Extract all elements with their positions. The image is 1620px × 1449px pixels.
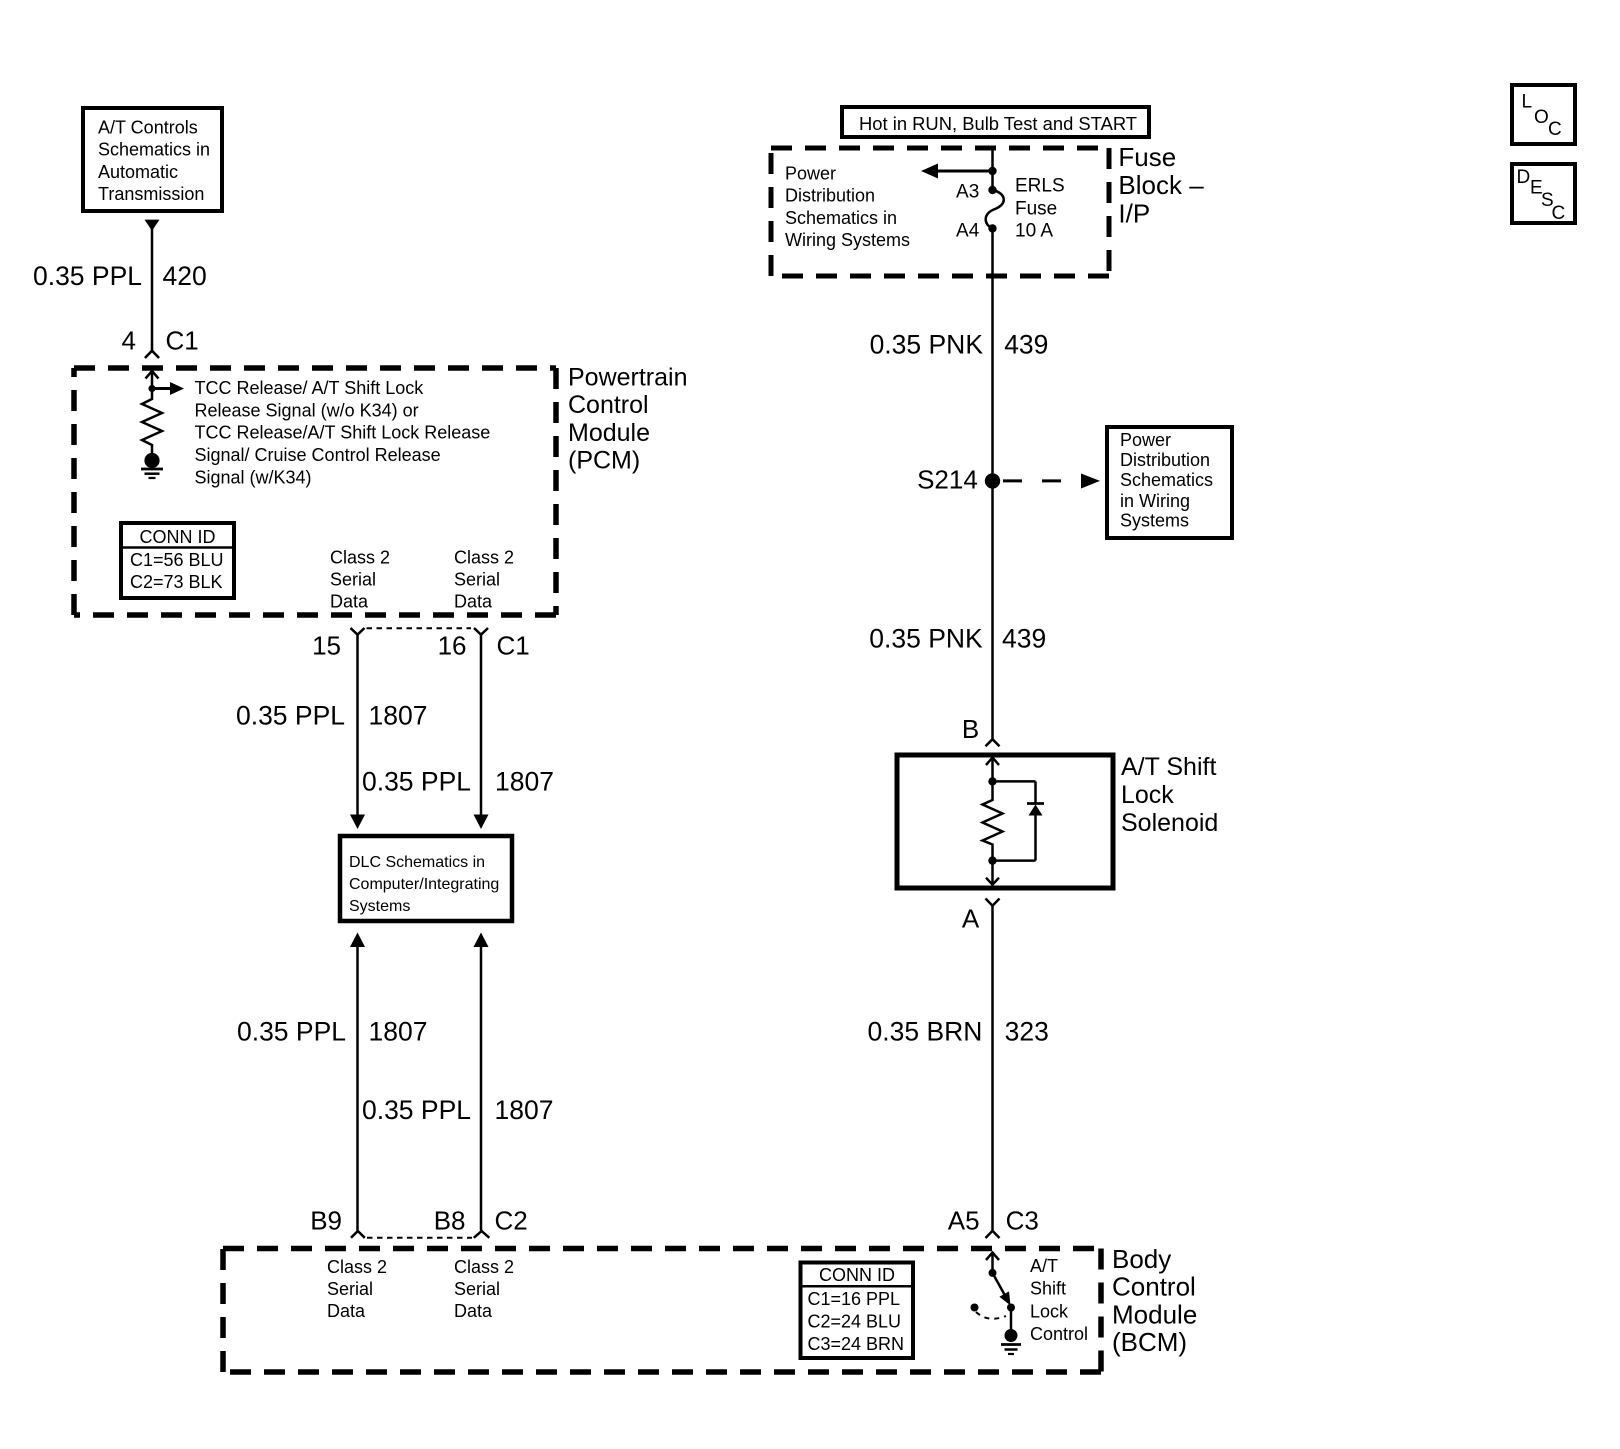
svg-text:Module: Module — [1112, 1299, 1197, 1329]
svg-text:Class 2: Class 2 — [330, 547, 390, 567]
svg-text:TCC Release/A/T Shift Lock Rel: TCC Release/A/T Shift Lock Release — [195, 423, 491, 443]
svg-text:0.35 PPL: 0.35 PPL — [33, 261, 142, 291]
svg-text:Shift: Shift — [1030, 1279, 1066, 1299]
svg-text:CONN ID: CONN ID — [819, 1265, 895, 1285]
Hot in RUN, Bulb Test and START feed box — [842, 107, 1149, 137]
junction dot at fuse feed — [988, 167, 996, 175]
Class 2 Serial Data label (PCM pin 16) — [454, 547, 514, 611]
svg-text:Wiring Systems: Wiring Systems — [785, 230, 910, 250]
branch arrow to Power Distribution (left-pointing) — [921, 164, 993, 179]
BCM internal pin A5 arrow — [986, 1253, 999, 1273]
wire label 0.35 PPL 1807 (pin 16 drop) — [362, 766, 554, 796]
svg-text:Distribution: Distribution — [785, 186, 875, 206]
connector chevron PCM pin 15 — [351, 628, 365, 635]
svg-text:10 A: 10 A — [1015, 221, 1053, 242]
svg-text:1807: 1807 — [495, 766, 554, 796]
ground symbol inside PCM — [141, 469, 163, 478]
connector chevron PCM pin 16 / C1 — [474, 628, 488, 635]
wire label 0.35 PPL 1807 (B8 riser) — [362, 1095, 553, 1125]
svg-text:1807: 1807 — [369, 700, 428, 730]
svg-text:C1: C1 — [166, 326, 199, 356]
svg-text:C2=73 BLK: C2=73 BLK — [130, 572, 223, 592]
svg-text:Hot in RUN, Bulb Test and STAR: Hot in RUN, Bulb Test and START — [859, 113, 1137, 134]
wire label 0.35 BRN 323 — [868, 1017, 1049, 1047]
svg-text:S214: S214 — [917, 465, 978, 495]
svg-text:Serial: Serial — [454, 1279, 500, 1299]
svg-text:Control: Control — [1112, 1272, 1196, 1302]
svg-text:323: 323 — [1005, 1017, 1049, 1047]
svg-text:C2: C2 — [495, 1205, 528, 1235]
svg-text:C3=24 BRN: C3=24 BRN — [808, 1334, 905, 1354]
BCM CONN ID table — [801, 1263, 914, 1359]
svg-text:A/T: A/T — [1030, 1256, 1058, 1276]
connector chevron solenoid pin B — [986, 739, 1000, 746]
svg-text:O: O — [1534, 107, 1549, 128]
svg-text:420: 420 — [163, 261, 207, 291]
svg-text:439: 439 — [1002, 623, 1046, 653]
DLC Schematics reference box — [340, 836, 512, 921]
splice S214 dot — [985, 473, 1000, 488]
svg-text:Lock: Lock — [1121, 781, 1174, 809]
svg-text:Serial: Serial — [330, 570, 376, 590]
svg-text:B9: B9 — [310, 1205, 342, 1235]
svg-text:0.35 PNK: 0.35 PNK — [869, 623, 983, 653]
svg-text:Data: Data — [327, 1301, 366, 1321]
dashed connector tie line between pins 15 and 16 — [367, 627, 472, 629]
svg-text:Fuse: Fuse — [1118, 142, 1176, 172]
svg-text:1807: 1807 — [495, 1095, 554, 1125]
svg-text:C: C — [1552, 203, 1566, 224]
ground dot inside PCM — [144, 453, 159, 468]
wire 439 from S214 down to solenoid pin B — [991, 481, 994, 739]
ground wire below switch — [1010, 1308, 1013, 1333]
svg-text:Signal/ Cruise Control Release: Signal/ Cruise Control Release — [195, 445, 441, 465]
connector chevron BCM pin A5 / C3 — [986, 1231, 1000, 1238]
ground dot inside BCM — [1005, 1329, 1018, 1342]
dashed connector tie line between pins B9 and B8 — [367, 1237, 472, 1239]
svg-text:(BCM): (BCM) — [1112, 1327, 1187, 1357]
svg-text:4: 4 — [122, 326, 136, 356]
wire label 0.35 PNK 439 (lower) — [869, 623, 1046, 653]
solenoid coil resistor — [983, 781, 1003, 860]
A/T Controls Schematics in Automatic Transmission reference box — [83, 108, 222, 211]
svg-text:I/P: I/P — [1118, 198, 1150, 228]
solenoid bottom node dot — [988, 856, 996, 864]
svg-text:Schematics in: Schematics in — [785, 208, 897, 228]
svg-text:Powertrain: Powertrain — [568, 364, 688, 392]
connector chevron BCM pin B9 — [351, 1231, 365, 1238]
svg-text:A: A — [962, 904, 980, 934]
LOC legend box — [1512, 85, 1575, 144]
BCM module label — [1112, 1244, 1197, 1357]
svg-text:Lock: Lock — [1030, 1301, 1069, 1321]
connector C1 female chevron at PCM pin 4 — [145, 351, 159, 358]
svg-text:Control: Control — [568, 391, 649, 419]
svg-text:A/T Controls: A/T Controls — [98, 118, 198, 138]
pin 4 / connector C1 labels — [122, 326, 199, 356]
svg-text:1807: 1807 — [369, 1017, 428, 1047]
svg-text:A5: A5 — [948, 1205, 980, 1235]
svg-text:Data: Data — [454, 1301, 493, 1321]
svg-text:0.35 PNK: 0.35 PNK — [870, 330, 984, 360]
svg-text:C1: C1 — [497, 631, 530, 661]
svg-text:0.35 PPL: 0.35 PPL — [362, 1095, 471, 1125]
svg-text:in Wiring: in Wiring — [1120, 491, 1190, 511]
PCM module label — [568, 364, 688, 475]
svg-text:Solenoid: Solenoid — [1121, 809, 1218, 837]
svg-text:C1=56 BLU: C1=56 BLU — [130, 550, 224, 570]
svg-text:Transmission: Transmission — [98, 184, 204, 204]
svg-text:Computer/Integrating: Computer/Integrating — [349, 876, 499, 893]
dashed reference arrow from S214 to Power Distribution box — [1003, 474, 1100, 489]
PCM internal male pin arrow (pin 4) — [146, 371, 159, 389]
svg-text:B: B — [962, 714, 979, 744]
Fuse Block - I/P dashed box — [771, 148, 1109, 276]
TCC Release signal description text — [195, 378, 491, 488]
svg-text:Power: Power — [1120, 430, 1171, 450]
A/T Shift Lock Solenoid box — [897, 755, 1113, 888]
signal branch arrow pointing right to TCC label — [152, 382, 184, 395]
wire label 0.35 PNK 439 (upper) — [870, 330, 1049, 360]
svg-text:Module: Module — [568, 419, 650, 447]
svg-text:0.35 BRN: 0.35 BRN — [868, 1017, 983, 1047]
wire label 0.35 PPL 1807 (pin 15 drop) — [236, 700, 427, 730]
svg-text:Class 2: Class 2 — [327, 1257, 387, 1277]
pin labels A5, C3 — [948, 1205, 1039, 1235]
svg-text:(PCM): (PCM) — [568, 446, 640, 474]
DESC legend box — [1512, 164, 1575, 224]
svg-text:Release Signal (w/o K34) or: Release Signal (w/o K34) or — [195, 400, 419, 420]
svg-text:Class 2: Class 2 — [454, 1257, 514, 1277]
svg-text:B8: B8 — [434, 1205, 466, 1235]
svg-text:15: 15 — [312, 631, 341, 661]
Class 2 Serial Data label (PCM pin 15) — [330, 547, 390, 611]
wire 1807 from BCM B8 up to DLC box (arrow up) — [474, 933, 489, 1231]
solenoid module label — [1121, 753, 1218, 837]
Power Distribution Schematics in Wiring Systems reference box (right) — [1107, 427, 1232, 538]
terminal labels A3, A4 — [956, 182, 980, 242]
svg-text:A/T Shift: A/T Shift — [1121, 753, 1216, 781]
ground symbol inside BCM — [1001, 1345, 1021, 1355]
svg-text:C3: C3 — [1006, 1205, 1039, 1235]
solenoid internal pin A arrow (down) — [986, 861, 999, 885]
clamp diode across solenoid coil — [993, 781, 1045, 860]
svg-text:Systems: Systems — [1120, 510, 1189, 530]
svg-text:Distribution: Distribution — [1120, 450, 1210, 470]
A/T shift lock control switch inside BCM — [971, 1269, 1016, 1319]
svg-text:L: L — [1522, 92, 1533, 113]
wire 1807 from BCM B9 up to DLC box (arrow up) — [350, 933, 365, 1231]
wire label 0.35 PPL 1807 (B9 riser) — [237, 1017, 427, 1047]
fuse value label ERLS Fuse 10 A — [1015, 176, 1065, 242]
svg-text:Class 2: Class 2 — [454, 547, 514, 567]
svg-text:Signal (w/K34): Signal (w/K34) — [195, 468, 312, 488]
switch label A/T Shift Lock Control — [1030, 1256, 1088, 1344]
connector chevron BCM pin B8 / C2 — [474, 1231, 490, 1238]
Class 2 Serial Data label (BCM pin B9) — [327, 1257, 387, 1321]
svg-text:C: C — [1548, 119, 1562, 140]
wire 323 from solenoid pin A down to BCM pin A5 — [991, 906, 994, 1230]
svg-text:CONN ID: CONN ID — [140, 527, 216, 547]
svg-text:Power: Power — [785, 164, 836, 184]
svg-text:Control: Control — [1030, 1324, 1088, 1344]
Power Distribution Schematics in Wiring Systems text (fuse block) — [785, 164, 910, 251]
node junction dot inside PCM — [148, 385, 155, 392]
wire 439 from fuse A4 down to splice S214 — [991, 228, 994, 481]
wire from ignition feed down through fuse block — [991, 148, 994, 190]
pin labels B9, B8, C2 — [310, 1205, 528, 1235]
svg-text:16: 16 — [438, 631, 467, 661]
fuse ERLS 10 A (terminals A3/A4 with S-curve element) — [986, 186, 1004, 233]
svg-text:Fuse: Fuse — [1015, 198, 1057, 219]
svg-text:D: D — [1517, 167, 1531, 188]
svg-text:ERLS: ERLS — [1015, 176, 1065, 197]
PCM CONN ID table — [121, 523, 234, 598]
wire label 0.35 PPL 420 — [33, 261, 207, 291]
wire 1807 from pin 16 down to DLC box (arrow down) — [474, 635, 489, 829]
svg-text:TCC Release/ A/T Shift Lock: TCC Release/ A/T Shift Lock — [195, 378, 425, 398]
svg-text:A3: A3 — [956, 182, 979, 203]
svg-text:0.35 PPL: 0.35 PPL — [237, 1017, 346, 1047]
svg-text:Serial: Serial — [454, 570, 500, 590]
svg-text:439: 439 — [1004, 330, 1048, 360]
svg-text:Serial: Serial — [327, 1279, 373, 1299]
Fuse Block - I/P module label — [1118, 142, 1204, 228]
Class 2 Serial Data label (BCM pin B8) — [454, 1257, 514, 1321]
svg-text:C2=24 BLU: C2=24 BLU — [808, 1312, 902, 1332]
svg-text:0.35 PPL: 0.35 PPL — [362, 766, 471, 796]
connector chevron solenoid pin A — [986, 899, 1000, 906]
pin labels 15, 16, C1 — [312, 631, 530, 661]
svg-text:Block –: Block – — [1118, 170, 1204, 200]
wire 1807 from pin 15 down to DLC box (arrow down) — [350, 635, 365, 829]
svg-text:Systems: Systems — [349, 898, 410, 915]
resistor (PCM internal pull element) — [142, 389, 162, 454]
wire 420 from A/T Controls box to PCM pin 4 (with down arrowhead) — [145, 220, 160, 351]
Body Control Module (BCM) dashed box — [223, 1249, 1101, 1373]
solenoid top node dot — [988, 777, 996, 785]
svg-text:A4: A4 — [956, 221, 980, 242]
svg-text:Schematics in: Schematics in — [98, 140, 210, 160]
solenoid internal pin B arrow — [986, 758, 999, 782]
Powertrain Control Module (PCM) dashed box — [74, 368, 556, 615]
svg-text:Data: Data — [454, 592, 493, 612]
svg-text:0.35 PPL: 0.35 PPL — [236, 700, 345, 730]
svg-text:Automatic: Automatic — [98, 162, 178, 182]
svg-text:Body: Body — [1112, 1244, 1171, 1274]
svg-text:C1=16 PPL: C1=16 PPL — [808, 1289, 901, 1309]
svg-text:Data: Data — [330, 592, 369, 612]
svg-text:Schematics: Schematics — [1120, 470, 1213, 490]
svg-text:DLC Schematics in: DLC Schematics in — [349, 854, 485, 871]
